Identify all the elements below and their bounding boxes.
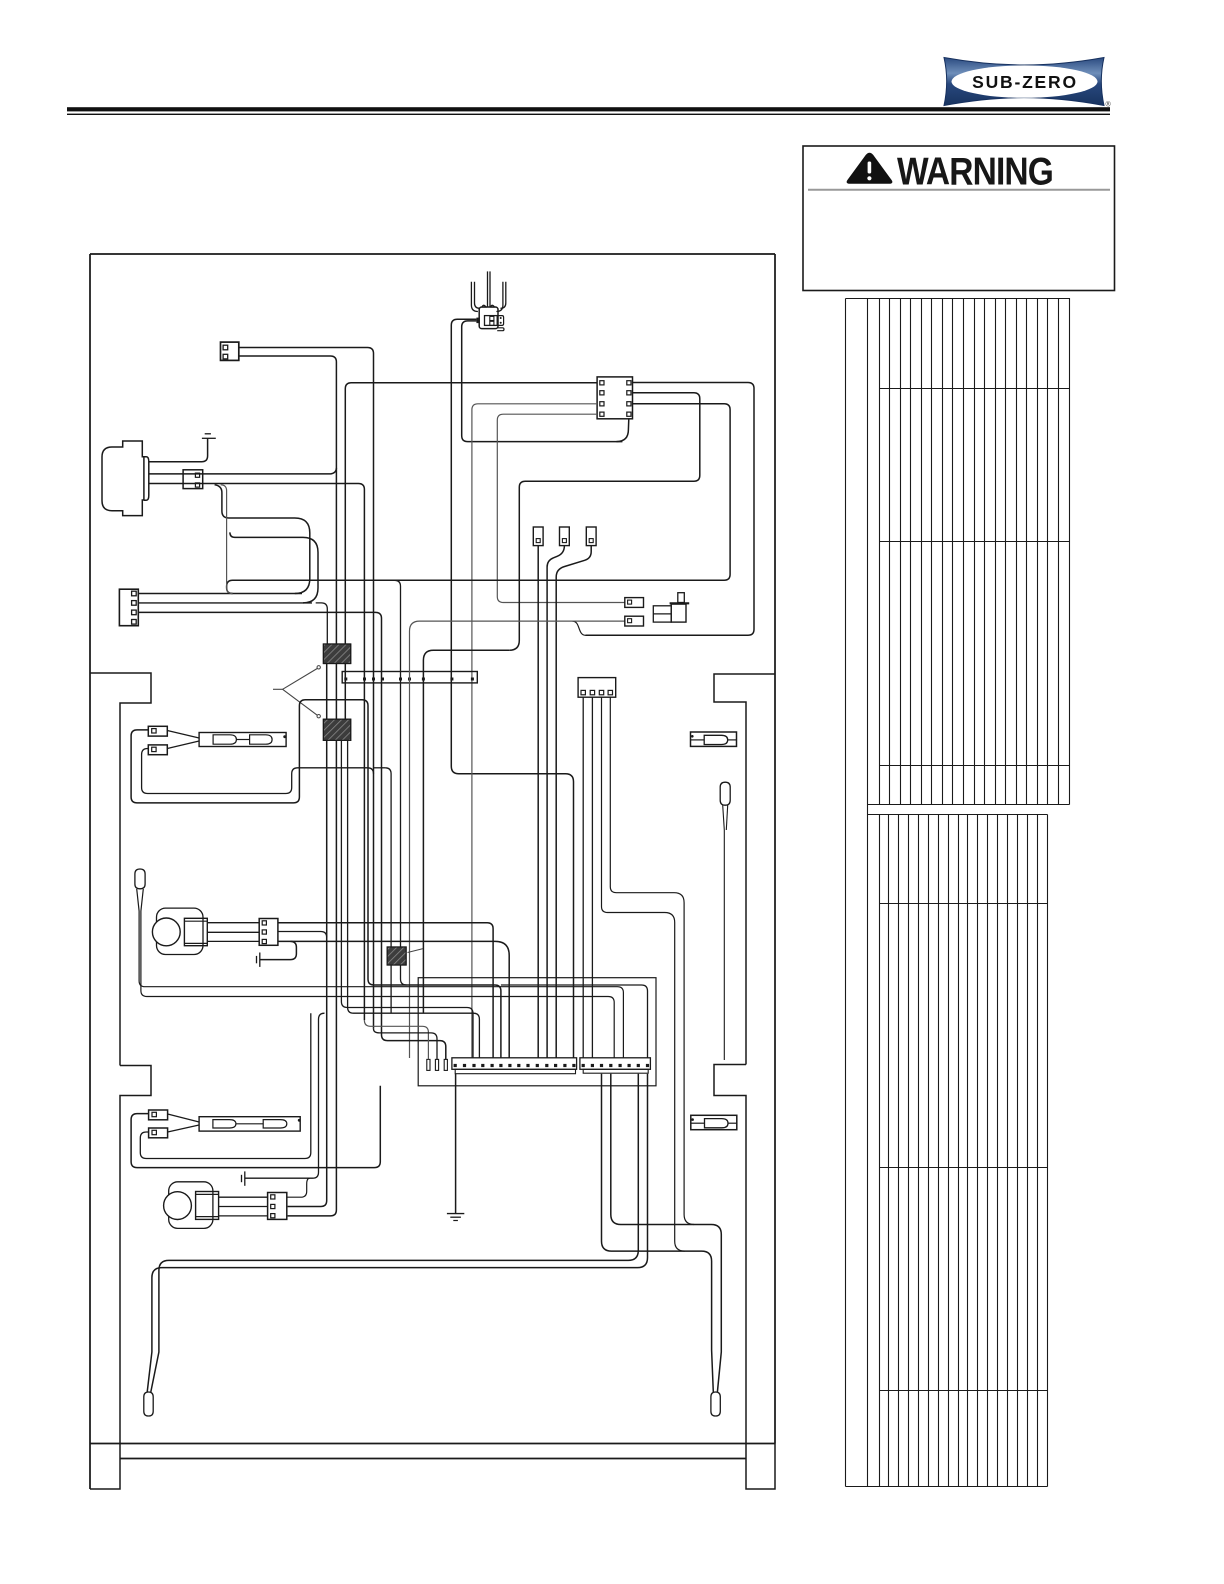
wire: strip2 pin1 to right probe inner	[602, 1074, 714, 1392]
lamp connector LC2a	[149, 1110, 168, 1120]
thermistor S4 (right mid)	[720, 782, 730, 805]
fan motor M1	[157, 908, 204, 954]
thermistor S1 (top)	[135, 869, 145, 889]
wire: relay R2 down-left	[509, 393, 700, 650]
wire: icemaker branch to CN-L4 line	[221, 485, 233, 594]
wire: relay bottom pin to strip2	[616, 419, 628, 442]
wire: LC1b left loop	[142, 749, 374, 794]
wire: M2 pin1 up to ground line	[287, 1178, 310, 1197]
wire: CN-L4 pin3	[138, 612, 446, 1059]
wire: LC2a left loop	[131, 1086, 380, 1168]
connector CN-L4 (4-pin)	[119, 589, 138, 626]
hatched block H1 (top)	[323, 644, 350, 664]
wire: valve to ground G1	[149, 438, 208, 461]
wire: H1 bottom to motor2 pin2	[288, 664, 327, 1207]
svg-text:®: ®	[1106, 100, 1112, 108]
ground symbol G3	[241, 1175, 243, 1182]
terminal strip ST1	[452, 1058, 577, 1070]
wire: strip2 pin2 to right probe outer	[611, 1074, 722, 1392]
warning box	[803, 146, 1115, 291]
wire: CN-L4 pin2	[138, 602, 312, 604]
motor M2 leads	[219, 1196, 268, 1198]
wire: relay L3 gray	[472, 404, 597, 1058]
wire: M1 pin1 to strip1	[278, 923, 493, 1058]
wire: strip2 pin8 long left inner	[147, 1074, 647, 1392]
hatched block H2 (top)	[323, 719, 350, 740]
S1 capillary pair	[137, 889, 624, 1058]
warning separator	[808, 189, 1110, 191]
wire: valve middle to node	[149, 468, 337, 474]
lamp connector LC1b	[148, 745, 167, 755]
wire: motor1 mid join	[278, 932, 327, 938]
wire: strip2 pin7 long left to probe S2	[151, 1074, 639, 1392]
wire: riser x391 from y767	[385, 768, 391, 1013]
fan motor M2	[169, 1182, 213, 1229]
hatched block H1	[323, 644, 350, 664]
power cord plug	[471, 282, 478, 312]
ice maker valve body	[102, 441, 144, 516]
terminal strip ST2	[580, 1058, 651, 1070]
wire: H3 riser from x400	[395, 580, 401, 947]
wire: G3 right riser	[245, 1013, 325, 1178]
fuse capsule FC2 (right lower)	[691, 1115, 737, 1129]
wire: ground lead from ST1	[455, 1074, 457, 1214]
lamp tube F2	[199, 1117, 300, 1131]
hatched block H3 (top)	[387, 947, 406, 965]
thermistor S3 (right)	[711, 1392, 720, 1416]
wire loop L1	[215, 485, 310, 594]
wire: bar riser x423 from h650	[423, 650, 509, 1013]
ground symbol G1	[205, 433, 211, 435]
spade terminal T2	[560, 527, 570, 546]
horizontal rule	[67, 107, 1110, 111]
drain/door switch SW1	[653, 606, 671, 622]
wire: CN-M4 pin3 jog right down	[602, 697, 685, 1251]
ice maker collar	[144, 457, 149, 500]
wire: relay R3 big loop	[227, 404, 730, 594]
terminal bar TB1	[342, 672, 477, 683]
wire: M1 pin3 ground tap	[260, 941, 297, 959]
warning triangle icon	[847, 153, 892, 183]
lamp leads 1	[167, 731, 199, 739]
wire: CN-L4 pin1	[138, 593, 302, 595]
pins P1-P3 left of strip	[427, 1059, 430, 1070]
wire: CN-M4 pin4 jog right down	[610, 697, 694, 1224]
relay K1 (8-pin box)	[597, 377, 632, 419]
wire A: relay L1 to left riser	[345, 383, 597, 719]
Sub-Zero logo	[944, 58, 1112, 109]
wire loop L2	[230, 532, 318, 603]
connector CN-B (2-pin, top)	[221, 342, 239, 360]
spade terminal T3	[586, 527, 596, 546]
thermistor S2 (left)	[144, 1392, 153, 1416]
wire: CN-M4 pin2 to strip2	[591, 697, 593, 1058]
cabinet outline	[90, 254, 775, 1489]
svg-text:WARNING: WARNING	[897, 151, 1053, 194]
lamp connector LC2b	[149, 1128, 168, 1138]
wire: bar riser x409 from box2	[410, 621, 625, 1058]
wire: S-link from gray line to loop	[573, 621, 586, 635]
connector CN-M4 (4-pin)	[578, 678, 616, 698]
connector box B2	[625, 616, 644, 626]
svg-text:SUB-ZERO: SUB-ZERO	[972, 72, 1078, 92]
fuse capsule FC1 (right)	[691, 732, 737, 746]
wire: sq2 risers	[341, 740, 473, 1058]
wire: valve bottom long	[149, 484, 365, 1021]
connector CN-M2 (3-pin)	[268, 1193, 287, 1220]
lamp tube F1	[199, 733, 286, 747]
wire: CN-B pin2 down	[239, 356, 337, 644]
wire: relay L4 to box1	[497, 414, 625, 602]
wire: y985 continues right to strip2 pin8	[501, 985, 648, 1058]
ground symbol G2	[256, 956, 258, 963]
hatched block H2	[323, 719, 350, 740]
wire: relay R1 loop to spade2	[586, 383, 755, 636]
ground symbol G4	[447, 1213, 464, 1215]
wire: riser bundle to pins	[364, 1020, 428, 1059]
wire: M1 pin3 to strip1 pin7	[278, 941, 509, 1058]
wire: plug line1	[451, 319, 573, 1058]
connector CN-M1 (3-pin)	[259, 919, 278, 946]
pointer lines to H1/H2	[317, 666, 320, 669]
wire: H1 top feeds	[316, 603, 328, 644]
wire: plug line2 (neutral)	[462, 321, 623, 442]
spade terminal T1	[533, 527, 543, 546]
connector CN-A (2-pin, valve)	[183, 470, 203, 489]
control board outline	[418, 978, 656, 1086]
condenser grille	[846, 298, 1070, 1487]
wire: H3 down to y985	[401, 965, 407, 985]
connector box B1	[625, 598, 644, 608]
wire: CN-M4 pin1 to strip2	[582, 697, 584, 1058]
wire: H1 bottom 2 to motor2 pin3	[288, 664, 337, 1216]
hatched block H3	[387, 947, 406, 965]
wire: LC1a left loop	[131, 700, 501, 1058]
motor M1 leads	[207, 922, 259, 924]
wire: CN-B pin1 down	[239, 348, 374, 1029]
lamp connector LC1a	[148, 726, 167, 736]
wire: LC2b left loop	[140, 1013, 310, 1158]
